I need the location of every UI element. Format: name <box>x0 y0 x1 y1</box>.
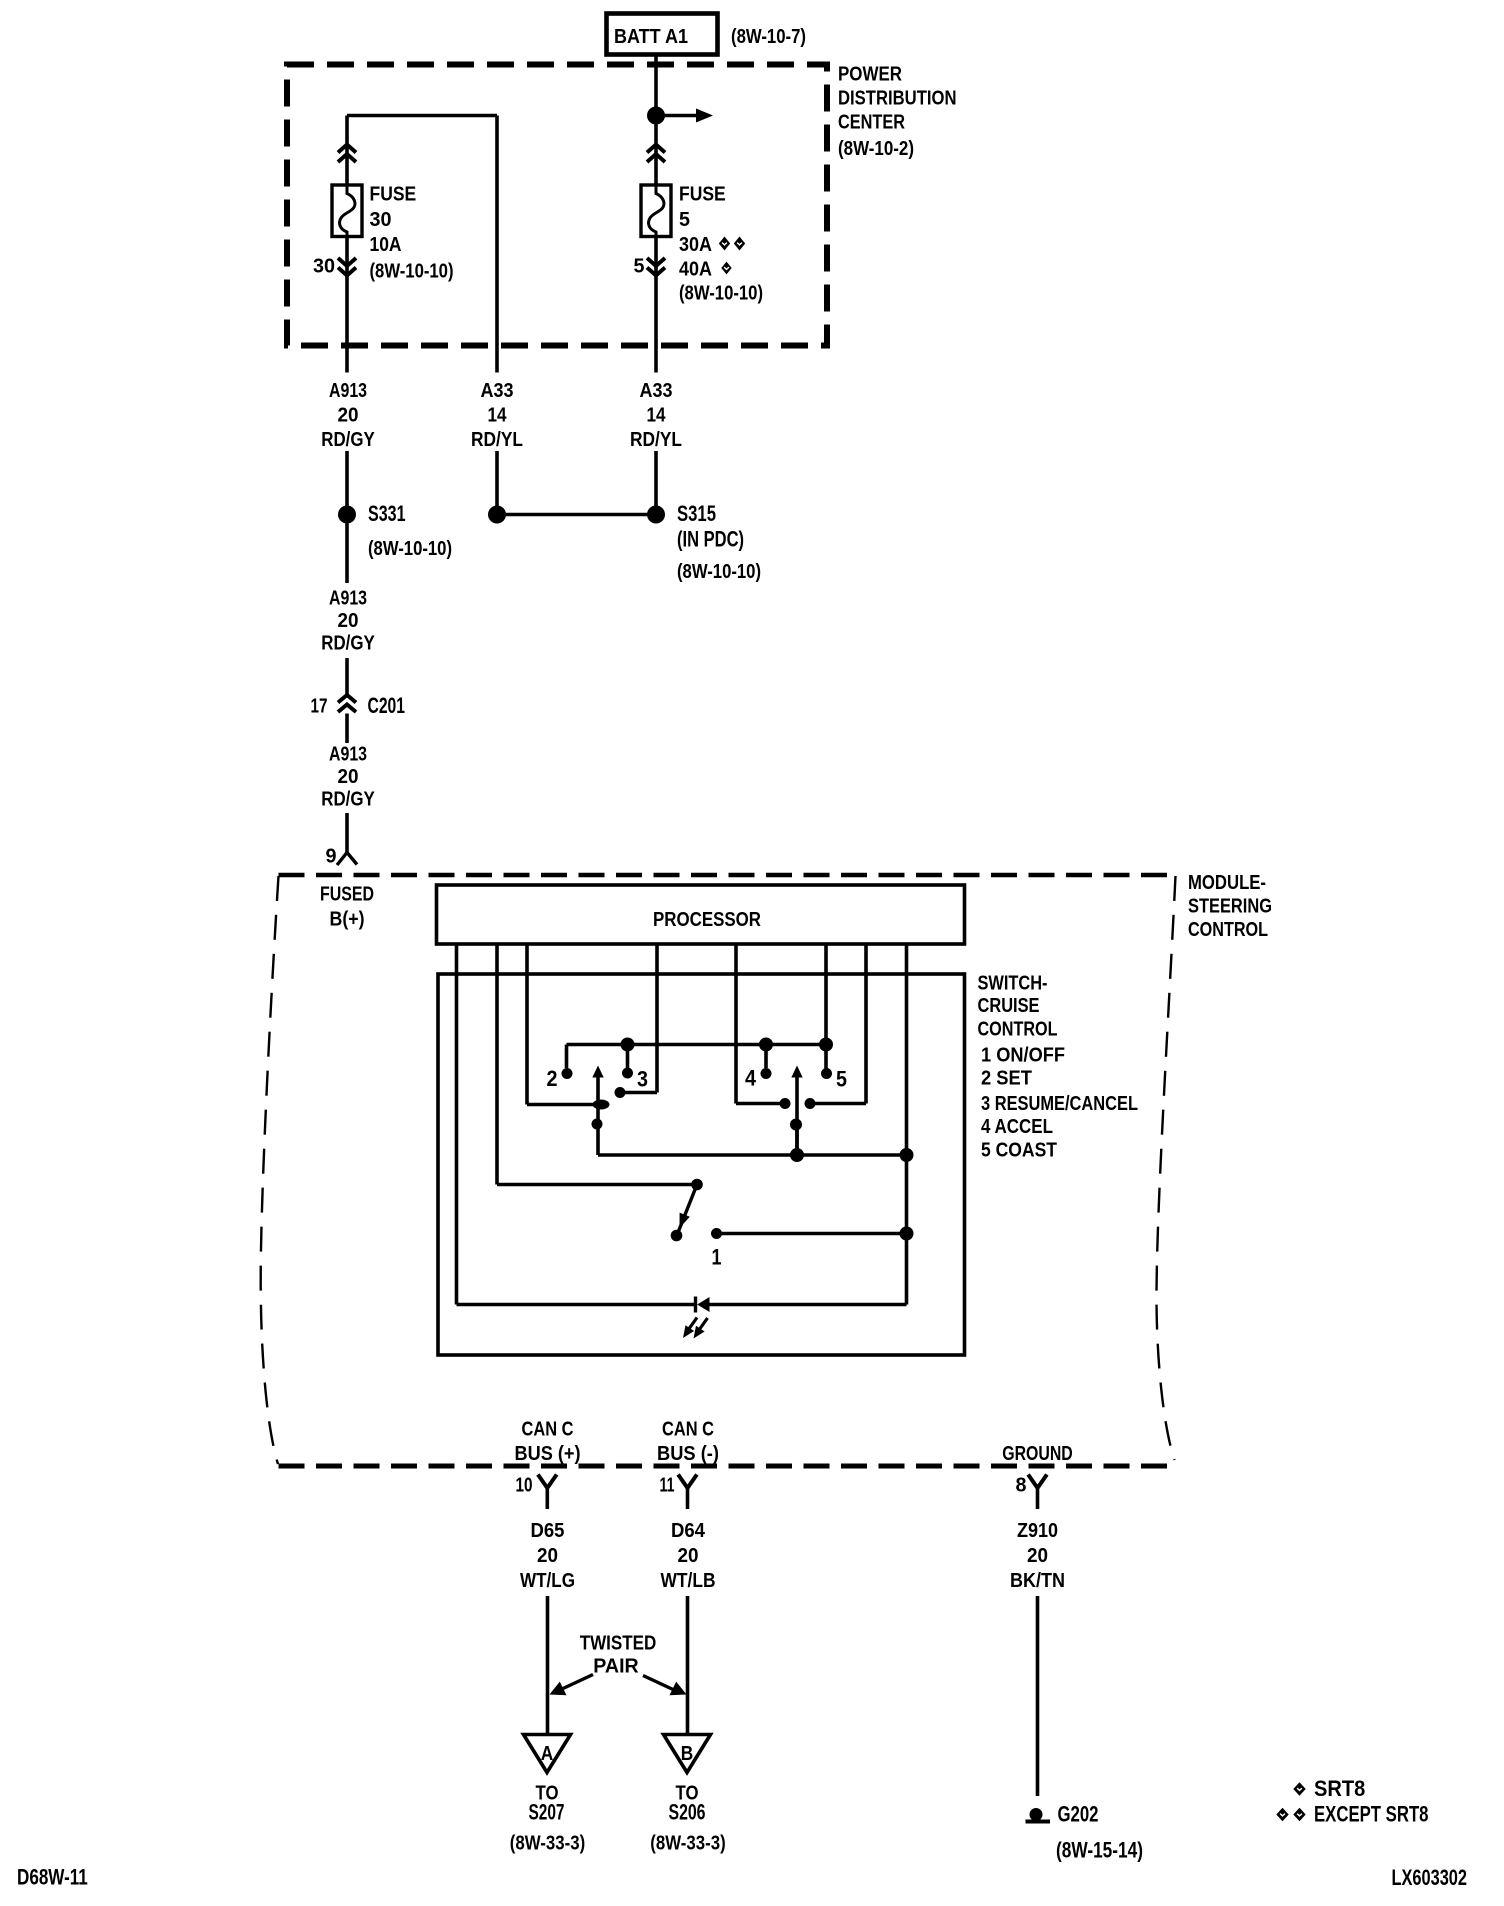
svg-text:17: 17 <box>311 696 328 718</box>
fuse F5 value label <box>679 184 763 305</box>
node rail junction above 5 <box>819 1038 833 1052</box>
svg-text:A913: A913 <box>329 380 367 402</box>
wire processor pin to set/resume rocker pivot <box>525 944 529 1105</box>
terminal 2 SET contact <box>547 1066 573 1091</box>
svg-text:EXCEPT SRT8: EXCEPT SRT8 <box>1314 1802 1429 1827</box>
wire processor pin to set/resume rocker contact <box>655 944 659 1093</box>
svg-text:(8W-33-3): (8W-33-3) <box>510 1833 585 1855</box>
svg-text:30: 30 <box>313 256 335 278</box>
module steering control dashed border right <box>1156 876 1175 1460</box>
legend diamond SRT8 <box>1293 1776 1365 1801</box>
svg-text:FUSED: FUSED <box>320 884 374 906</box>
wire A913 to splice S331 <box>345 451 349 506</box>
fuse F30 value label <box>370 184 454 283</box>
node rail junction above 3 <box>621 1038 635 1052</box>
svg-text:(8W-15-14): (8W-15-14) <box>1056 1838 1143 1863</box>
svg-text:20: 20 <box>338 766 359 788</box>
svg-text:CAN C: CAN C <box>662 1419 714 1441</box>
wire label Z910 20 BK/TN <box>1010 1520 1065 1592</box>
svg-text:5: 5 <box>679 209 690 231</box>
svg-text:S315: S315 <box>677 501 716 526</box>
svg-text:C201: C201 <box>368 693 406 718</box>
set/resume rocker contact to processor <box>615 1087 658 1098</box>
svg-text:20: 20 <box>678 1545 699 1567</box>
svg-text:5 COAST: 5 COAST <box>981 1140 1057 1162</box>
label TO S207 <box>510 1783 585 1855</box>
svg-text:WT/LG: WT/LG <box>520 1570 575 1592</box>
svg-text:POWER: POWER <box>838 64 902 86</box>
svg-text:S206: S206 <box>669 1800 706 1825</box>
splice S315 junction dots and tie line <box>488 501 761 583</box>
module steering control dashed border top <box>279 873 1177 878</box>
svg-text:CAN C: CAN C <box>522 1419 574 1441</box>
connector C201 pin 17 <box>311 693 406 718</box>
off-page connector B <box>664 1735 711 1773</box>
wire ground down <box>1036 1596 1040 1796</box>
svg-text:5: 5 <box>634 256 645 278</box>
svg-text:PAIR: PAIR <box>593 1656 639 1678</box>
node rail junction above 4 <box>759 1038 773 1052</box>
svg-text:20: 20 <box>338 405 359 427</box>
svg-text:1: 1 <box>712 1245 722 1270</box>
wire processor pin to accel/coast rocker right contact <box>864 944 868 1104</box>
label TWISTED PAIR with pointers <box>550 1633 687 1696</box>
wire label A913 20 RD/GY (third) <box>321 744 375 811</box>
svg-text:A913: A913 <box>329 744 367 766</box>
accel/coast rocker pivot <box>790 1119 802 1131</box>
svg-text:CENTER: CENTER <box>838 112 905 134</box>
svg-text:40A: 40A <box>679 259 712 281</box>
on/off switch feed <box>497 1183 697 1187</box>
node junction on battery feed with arrow to other circuits <box>647 107 713 125</box>
wire label A33 14 RD/YL (right) <box>630 380 682 451</box>
svg-text:LX603302: LX603302 <box>1392 1865 1468 1890</box>
fuse F5 <box>641 185 671 237</box>
wire C201 down <box>345 714 349 744</box>
svg-text:STEERING: STEERING <box>1188 896 1272 918</box>
battery feed box BATT A1 <box>607 14 807 55</box>
svg-text:11: 11 <box>660 1475 675 1497</box>
label SWITCH-CRUISE CONTROL legend <box>978 973 1139 1162</box>
wire processor pin to switch common rail <box>824 944 828 1073</box>
svg-text:SRT8: SRT8 <box>1314 1776 1365 1801</box>
svg-text:CONTROL: CONTROL <box>978 1019 1058 1041</box>
accel/coast rocker wiper arrow <box>791 1066 802 1151</box>
svg-text:A33: A33 <box>481 380 514 402</box>
svg-text:20: 20 <box>1027 1545 1048 1567</box>
svg-text:CRUISE: CRUISE <box>978 995 1040 1017</box>
accel/coast rocker right contact <box>805 1098 867 1109</box>
svg-text:SWITCH-: SWITCH- <box>978 973 1048 995</box>
svg-text:2 SET: 2 SET <box>981 1068 1032 1090</box>
svg-text:(8W-33-3): (8W-33-3) <box>650 1833 725 1855</box>
svg-text:D64: D64 <box>671 1520 706 1542</box>
label MODULE-STEERING CONTROL <box>1188 872 1272 941</box>
connector chevrons above fuse 30 <box>338 145 356 163</box>
svg-text:S331: S331 <box>368 501 406 526</box>
svg-text:Z910: Z910 <box>1017 1520 1058 1542</box>
label CAN C BUS (+) <box>515 1419 581 1466</box>
svg-text:BUS (-): BUS (-) <box>657 1443 719 1465</box>
svg-text:(8W-10-10): (8W-10-10) <box>679 283 763 305</box>
wire CAN C bus + down <box>546 1596 550 1735</box>
svg-text:PROCESSOR: PROCESSOR <box>653 909 761 931</box>
svg-text:A: A <box>541 1743 554 1765</box>
svg-text:10: 10 <box>516 1475 533 1497</box>
set/resume rocker wiper arrow <box>592 1066 603 1105</box>
on/off switch blade <box>671 1179 703 1242</box>
svg-text:(IN PDC): (IN PDC) <box>677 527 744 552</box>
wire label A913 20 RD/GY (top) <box>321 380 375 451</box>
wire accel/coast pivot to common <box>795 1125 799 1156</box>
svg-text:D65: D65 <box>531 1520 565 1542</box>
wire label A33 14 RD/YL (middle) <box>471 380 523 451</box>
switch common return line <box>598 1153 907 1157</box>
wire label A913 20 RD/GY (second) <box>321 588 375 655</box>
svg-text:FUSE: FUSE <box>370 184 417 206</box>
svg-text:DISTRIBUTION: DISTRIBUTION <box>838 88 957 110</box>
svg-text:(8W-10-10): (8W-10-10) <box>368 538 452 560</box>
connector pin 9 into module <box>326 846 358 868</box>
svg-text:GROUND: GROUND <box>1002 1443 1073 1465</box>
node common at accel/coast <box>790 1148 804 1162</box>
svg-text:2: 2 <box>547 1066 558 1091</box>
terminal 3 RESUME/CANCEL contact <box>622 1067 648 1092</box>
label POWER DISTRIBUTION CENTER <box>838 64 957 161</box>
wire rail to terminal 4 <box>764 1045 768 1069</box>
svg-text:RD/GY: RD/GY <box>321 789 375 811</box>
LED emission arrows <box>683 1318 708 1339</box>
svg-text:14: 14 <box>488 405 508 427</box>
wire fuse 5 down out of PDC <box>654 237 658 373</box>
accel/coast rocker left contact <box>736 1098 791 1109</box>
wire rail to terminal 2 <box>565 1045 569 1069</box>
ground G202 <box>1026 1802 1144 1863</box>
on/off switch output contact 1 <box>711 1227 914 1270</box>
legend diamonds EXCEPT SRT8 <box>1276 1802 1428 1827</box>
LED indicator lamp <box>457 1297 907 1313</box>
power distribution center dashed box <box>287 65 827 346</box>
svg-text:A33: A33 <box>640 380 673 402</box>
wire CAN C bus - down <box>686 1596 690 1735</box>
svg-text:TWISTED: TWISTED <box>580 1633 657 1655</box>
module steering control dashed border left <box>261 876 279 1464</box>
wire BATT A1 down into PDC <box>654 55 658 186</box>
node common at return wire <box>900 1148 914 1162</box>
splice S331 <box>338 501 452 560</box>
svg-text:30: 30 <box>370 209 392 231</box>
svg-text:3: 3 <box>637 1067 648 1092</box>
svg-text:3 RESUME/CANCEL: 3 RESUME/CANCEL <box>981 1093 1138 1115</box>
svg-text:RD/GY: RD/GY <box>321 633 375 655</box>
svg-text:(8W-10-10): (8W-10-10) <box>677 561 761 583</box>
svg-text:(8W-10-7): (8W-10-7) <box>731 26 806 48</box>
connector pin 11 <box>660 1475 697 1510</box>
terminal 5 COAST contact <box>821 1067 847 1092</box>
svg-text:4: 4 <box>745 1066 757 1091</box>
pin 30 chevrons below fuse 30 <box>313 256 356 278</box>
wire processor pin to on/off switch feed <box>495 944 499 1185</box>
wire A33 to splice <box>495 451 499 506</box>
svg-text:(8W-10-2): (8W-10-2) <box>838 138 914 160</box>
svg-text:20: 20 <box>537 1545 558 1567</box>
svg-text:9: 9 <box>326 846 337 868</box>
svg-text:G202: G202 <box>1058 1802 1099 1827</box>
svg-text:1 ON/OFF: 1 ON/OFF <box>981 1045 1065 1067</box>
wire label D64 20 WT/LB <box>661 1520 716 1592</box>
svg-text:14: 14 <box>647 405 667 427</box>
svg-text:BATT A1: BATT A1 <box>614 26 688 48</box>
label TO S206 <box>650 1783 725 1855</box>
connector pin 10 <box>516 1475 557 1510</box>
diamond marks SRT8 variants at fuse 5 <box>719 237 745 275</box>
set/resume rocker switch feed <box>527 1103 594 1107</box>
node FUSED B(+) <box>320 884 374 931</box>
off-page connector A <box>524 1735 571 1773</box>
pin 5 chevrons below fuse 5 <box>634 256 666 278</box>
switch common rail <box>567 1043 827 1047</box>
svg-text:WT/LB: WT/LB <box>661 1570 716 1592</box>
svg-text:RD/YL: RD/YL <box>471 429 523 451</box>
svg-text:A913: A913 <box>329 588 367 610</box>
wire processor pin to LED feed <box>455 944 459 1305</box>
svg-text:FUSE: FUSE <box>679 184 726 206</box>
wire set/resume pivot to common <box>596 1105 600 1156</box>
svg-text:4 ACCEL: 4 ACCEL <box>981 1116 1053 1138</box>
terminal 4 ACCEL contact <box>745 1066 772 1091</box>
wire S331 down <box>345 524 349 584</box>
svg-text:10A: 10A <box>370 234 402 256</box>
svg-text:RD/YL: RD/YL <box>630 429 682 451</box>
svg-text:S207: S207 <box>529 1800 565 1825</box>
svg-text:(8W-10-10): (8W-10-10) <box>370 261 454 283</box>
wire down to module pin 9 <box>345 813 349 853</box>
svg-text:BUS (+): BUS (+) <box>515 1443 581 1465</box>
set/resume rocker pivot <box>593 1100 610 1110</box>
svg-text:5: 5 <box>836 1067 847 1092</box>
wire A33 to splice S315 <box>654 451 658 506</box>
wire rail to terminal 3 <box>626 1045 630 1069</box>
svg-text:30A: 30A <box>679 234 712 256</box>
wire fuse 30 down out of PDC <box>345 237 349 373</box>
switch-cruise control box <box>438 974 965 1355</box>
wire feed to fuse 30 column and A33 branch <box>347 116 497 373</box>
wire battery to fuse 5, chevrons <box>647 145 665 163</box>
wire processor pin to switch return <box>905 944 909 1305</box>
svg-text:D68W-11: D68W-11 <box>17 1865 88 1890</box>
svg-text:B(+): B(+) <box>330 909 365 931</box>
label CAN C BUS (-) <box>657 1419 719 1466</box>
svg-text:BK/TN: BK/TN <box>1010 1570 1065 1592</box>
svg-text:MODULE-: MODULE- <box>1188 872 1266 894</box>
processor block U1 <box>437 885 965 944</box>
svg-text:CONTROL: CONTROL <box>1188 919 1268 941</box>
wire down to connector C201 <box>345 658 349 694</box>
module steering control dashed border bottom <box>279 1464 1171 1469</box>
node below set/resume pivot <box>592 1119 603 1130</box>
wire processor pin to accel/coast rocker left contact <box>734 944 738 1104</box>
wire label D65 20 WT/LG <box>520 1520 575 1592</box>
svg-text:RD/GY: RD/GY <box>321 429 375 451</box>
svg-text:B: B <box>681 1743 694 1765</box>
svg-text:20: 20 <box>338 610 359 632</box>
connector pin 8 <box>1016 1475 1047 1510</box>
svg-text:8: 8 <box>1016 1475 1027 1497</box>
fuse F30 <box>332 185 362 237</box>
